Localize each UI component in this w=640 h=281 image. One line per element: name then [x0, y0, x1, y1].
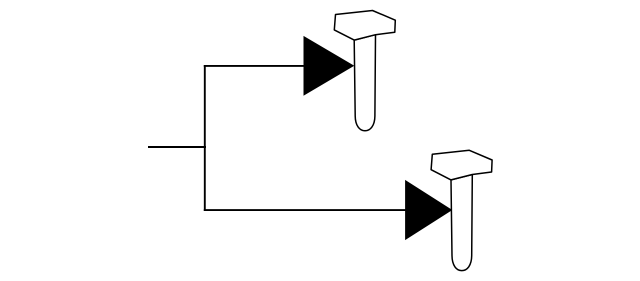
bottom branch wire	[204, 209, 406, 211]
bolt B2 shank	[451, 175, 472, 271]
bolt symbol B1 (top)	[334, 11, 395, 131]
buffer triangle U1	[304, 37, 353, 95]
bolt B1 head	[334, 11, 395, 41]
bolt B2 head	[431, 150, 492, 180]
bolt symbol B2 (bottom)	[431, 150, 492, 270]
vertical bus wire	[204, 65, 206, 211]
bolt B1 shank	[354, 35, 375, 131]
top branch wire	[204, 65, 305, 67]
buffer triangle U2	[406, 181, 452, 239]
input stub wire	[148, 146, 206, 148]
